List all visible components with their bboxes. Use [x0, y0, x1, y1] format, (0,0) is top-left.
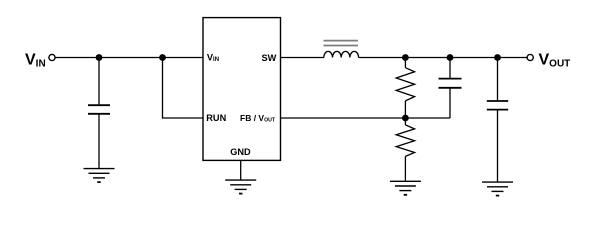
- junction FB node: [402, 115, 409, 122]
- junction R1 top: [402, 54, 409, 61]
- wire RUN: [163, 58, 204, 119]
- junction Cff top: [447, 54, 454, 61]
- junction RUN node: [159, 54, 166, 61]
- capacitor Cout: [487, 58, 508, 182]
- capacitor C1: [88, 105, 110, 114]
- IC U1 body: [203, 18, 281, 161]
- terminal VIN: [49, 54, 55, 60]
- ground Cout: [482, 182, 513, 196]
- wire SW to inductor: [281, 57, 325, 59]
- wire output rail: [359, 57, 527, 59]
- svg-text:SW: SW: [261, 53, 276, 63]
- ground input cap: [84, 169, 115, 183]
- resistor R2: [396, 118, 414, 181]
- wire C1 top lead: [98, 58, 100, 105]
- wire C1 bottom lead: [98, 115, 100, 169]
- wire input rail: [55, 57, 203, 59]
- svg-text:RUN: RUN: [206, 113, 226, 123]
- terminal VOUT: [527, 54, 533, 60]
- junction input cap node: [96, 54, 103, 61]
- resistor R1: [396, 58, 414, 119]
- inductor L1: [324, 41, 359, 58]
- svg-text:GND: GND: [230, 147, 251, 157]
- wire IC GND lead: [240, 160, 242, 179]
- ground IC: [225, 180, 256, 194]
- wire FB: [281, 117, 451, 119]
- ground R2: [390, 181, 421, 195]
- capacitor Cff: [439, 58, 462, 119]
- junction Cout top: [494, 54, 501, 61]
